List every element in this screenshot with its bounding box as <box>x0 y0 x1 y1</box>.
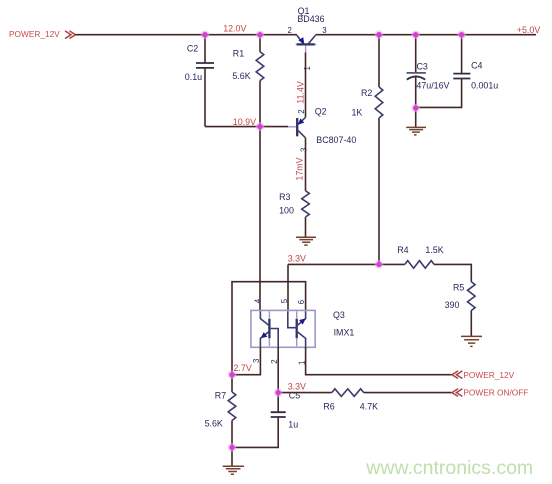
wire Q3 pin1 down and right to POWER_12V port <box>306 346 452 375</box>
svg-text:47u/16V: 47u/16V <box>416 81 449 91</box>
svg-text:1.5K: 1.5K <box>425 245 443 255</box>
svg-text:17mV: 17mV <box>295 157 305 180</box>
ground (below R5) <box>461 336 482 346</box>
svg-text:12.0V: 12.0V <box>223 24 246 34</box>
port POWER_12V (right) <box>452 370 515 380</box>
svg-text:1: 1 <box>303 66 312 70</box>
ground (below C3) <box>406 127 426 134</box>
node bottom ground <box>229 445 234 450</box>
wire node 10.9V horizontal <box>205 126 288 128</box>
node 12V at R1 <box>257 32 262 37</box>
capacitor C2 <box>185 35 214 127</box>
wire 3.3V rail <box>288 263 405 265</box>
svg-text:BD436: BD436 <box>297 14 324 24</box>
svg-text:R1: R1 <box>233 49 244 59</box>
svg-text:3: 3 <box>322 26 326 35</box>
svg-text:R5: R5 <box>453 283 464 293</box>
wire Q3 pin4 long vertical from 10.9V node <box>259 127 261 311</box>
svg-text:3: 3 <box>299 148 308 152</box>
wire Q3 pin5 up to 3.3V rail <box>287 264 289 310</box>
svg-text:R6: R6 <box>323 402 334 412</box>
svg-text:2: 2 <box>288 26 292 35</box>
node 3.3V at C5 <box>276 390 281 395</box>
wire top rail right (Q1 collector to +5.0V) <box>315 34 536 36</box>
port POWER_12V (input, top-left) <box>9 29 76 39</box>
svg-text:0.1u: 0.1u <box>185 72 202 82</box>
ground (bottom, below R7/C5) <box>223 466 244 474</box>
svg-text:C3: C3 <box>417 62 428 72</box>
svg-text:2.7V: 2.7V <box>234 363 252 373</box>
svg-text:C2: C2 <box>187 43 198 53</box>
resistor R2 <box>352 35 383 265</box>
svg-text:C4: C4 <box>471 60 482 70</box>
svg-text:4.7K: 4.7K <box>360 402 378 412</box>
wire Q3 pin2 down to C5 node <box>277 346 279 412</box>
svg-text:Q3: Q3 <box>333 310 345 320</box>
wire Q1 base to Q2 emitter <box>305 52 307 117</box>
capacitor C5 <box>232 391 300 448</box>
svg-text:R7: R7 <box>215 391 226 401</box>
svg-text:1K: 1K <box>352 107 363 117</box>
resistor R7 <box>205 375 236 448</box>
ground (below R3) <box>296 237 316 245</box>
svg-text:R2: R2 <box>361 88 372 98</box>
svg-text:5: 5 <box>280 298 289 303</box>
svg-text:+5.0V: +5.0V <box>517 25 541 35</box>
svg-text:390: 390 <box>445 300 460 310</box>
transistor array Q3 (IMX1) <box>251 310 354 347</box>
resistor R5 <box>445 282 476 336</box>
resistor R1 <box>232 35 263 127</box>
svg-text:3.3V: 3.3V <box>288 253 306 263</box>
port POWER ON/OFF <box>452 387 528 397</box>
wire Q2 collector to R3 <box>305 138 307 191</box>
svg-text:11.4V: 11.4V <box>295 81 305 104</box>
wire Q3 pin6 elbow to 2.7V column <box>232 282 306 375</box>
wire R3 to ground <box>305 217 307 237</box>
node C3/C4 ground <box>413 105 418 110</box>
svg-text:5.6K: 5.6K <box>205 419 223 429</box>
capacitor C4 <box>416 35 499 108</box>
svg-text:BC807-40: BC807-40 <box>316 135 356 145</box>
svg-text:R3: R3 <box>279 192 290 202</box>
svg-text:10.9V: 10.9V <box>233 117 256 127</box>
node 12V at C2 <box>202 32 207 37</box>
wire C3 node to ground <box>415 108 417 127</box>
node 3.3V at R2 <box>376 262 381 267</box>
capacitor C3 (polarized) <box>407 35 450 108</box>
Q3 right transistor <box>288 311 306 346</box>
svg-text:Q2: Q2 <box>315 107 327 117</box>
transistor Q1 <box>288 6 327 52</box>
svg-text:3: 3 <box>252 359 261 363</box>
svg-text:4: 4 <box>254 298 263 303</box>
node 5V at R2 <box>376 32 381 37</box>
svg-text:www.cntronics.com: www.cntronics.com <box>365 457 533 479</box>
resistor R6 <box>278 389 451 412</box>
transistor Q2 <box>288 107 356 145</box>
svg-text:6: 6 <box>297 300 306 304</box>
svg-text:100: 100 <box>279 206 294 216</box>
node 5V at C4 <box>459 32 464 37</box>
svg-text:POWER_12V: POWER_12V <box>9 29 60 39</box>
wire Q3 pin3 down to 2.7V node <box>232 346 260 375</box>
svg-text:2: 2 <box>297 109 306 113</box>
svg-text:R4: R4 <box>397 245 408 255</box>
resistor R3 <box>279 191 309 217</box>
wire top rail left (POWER_12V to Q1 emitter) <box>76 34 298 36</box>
node 2.7V <box>229 372 234 377</box>
svg-text:0.001u: 0.001u <box>471 81 498 91</box>
Q3 left transistor <box>260 311 278 346</box>
svg-text:5.6K: 5.6K <box>232 71 250 81</box>
svg-text:1u: 1u <box>288 420 298 430</box>
resistor R4 <box>397 245 471 282</box>
node 5V at C3 <box>413 32 418 37</box>
node 10.9V <box>257 124 262 129</box>
svg-text:POWER ON/OFF: POWER ON/OFF <box>463 387 528 397</box>
svg-text:POWER_12V: POWER_12V <box>463 370 514 380</box>
svg-text:IMX1: IMX1 <box>334 328 355 338</box>
wire bottom node to ground <box>231 447 233 466</box>
